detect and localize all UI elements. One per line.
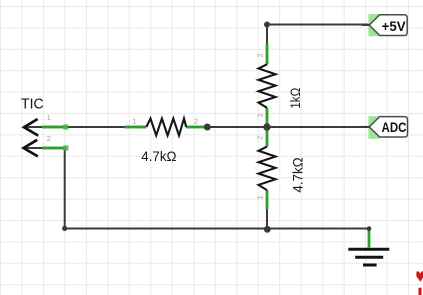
wire: R2 pin 1 to node A: [266, 108, 268, 127]
ground symbol: [348, 249, 389, 265]
net connector ADC (tag): [369, 117, 407, 137]
svg-text:1kΩ: 1kΩ: [288, 88, 304, 109]
resistor R3 4.7k (vertical zigzag): [259, 147, 276, 191]
wire: arrow pin 2 of J1 shaft: [24, 147, 65, 149]
svg-text:2: 2: [256, 53, 265, 57]
pin highlight: J1 pin 2 (green): [42, 145, 68, 150]
resistor R2 1k (vertical zigzag): [259, 64, 276, 108]
bend dot: ground connection: [367, 226, 372, 231]
resistor R1 4.7k (horizontal zigzag): [146, 119, 186, 136]
bend dot: bottom-left corner: [62, 226, 67, 231]
pin highlight: R2 pin 2 (green): [265, 44, 269, 65]
junction dot: R1 pin 2 to wire: [204, 124, 211, 131]
wire stub into +5V tag point: [362, 24, 370, 26]
svg-text:TIC: TIC: [21, 97, 44, 113]
pin highlight: R3 pin 2 (green): [265, 128, 269, 147]
pin highlight: R3 pin 1 (green): [265, 190, 269, 210]
pin highlight: R1 pin 2 (green): [186, 125, 208, 129]
pin highlight: J1 pin 1 (green): [42, 124, 68, 129]
pin highlight: R1 pin 1 (green): [125, 125, 147, 129]
wire: R3 pin 1 down to bottom rail: [266, 190, 268, 229]
pin highlight: R2 pin 1 (green): [265, 108, 269, 126]
wire: node B down to R2 pin 2: [266, 25, 268, 65]
svg-text:4.7kΩ: 4.7kΩ: [291, 157, 307, 192]
svg-text:1: 1: [133, 116, 137, 125]
svg-text:2: 2: [47, 134, 51, 143]
pin highlight square: ADC connector tip: [368, 116, 380, 139]
svg-text:ADC: ADC: [382, 119, 407, 135]
pin highlight square: +5V connector tip: [368, 14, 380, 36]
wire: top rail from node B to +5V connector: [267, 24, 369, 26]
wire: left vertical drop from pin 2: [64, 148, 66, 229]
junction dot: bottom rail / R3: [264, 226, 271, 233]
svg-text:+5V: +5V: [382, 18, 407, 34]
wire: bottom rail: [65, 228, 369, 230]
junction node A (dot R1/R2/R3): [263, 123, 270, 130]
red fragment: clipped red marker bar: [419, 288, 422, 295]
svg-text:1: 1: [256, 113, 265, 117]
svg-text:1: 1: [47, 113, 51, 122]
junction node B (dot at top): [264, 22, 270, 28]
pin arrow 2 of J1: [24, 140, 38, 157]
wire: node A to R3 pin 2: [266, 127, 268, 147]
svg-text:1: 1: [256, 195, 265, 199]
net connector +5V (tag): [369, 15, 407, 36]
svg-text:2: 2: [256, 136, 265, 140]
svg-text:2: 2: [194, 116, 198, 125]
pin highlight: ground pin (green): [367, 229, 371, 248]
pin arrow 1 of J1: [24, 119, 38, 136]
wire: arrow pin 1 of J1 to R1: [24, 126, 146, 128]
wire stub into ADC tag point: [362, 126, 370, 128]
svg-text:4.7kΩ: 4.7kΩ: [141, 149, 176, 165]
red fragment: clipped red marker top: [416, 271, 423, 281]
wire: R1 pin 2 through node A to ADC connector: [186, 126, 369, 128]
wire: bottom rail to ground pin: [368, 229, 370, 248]
